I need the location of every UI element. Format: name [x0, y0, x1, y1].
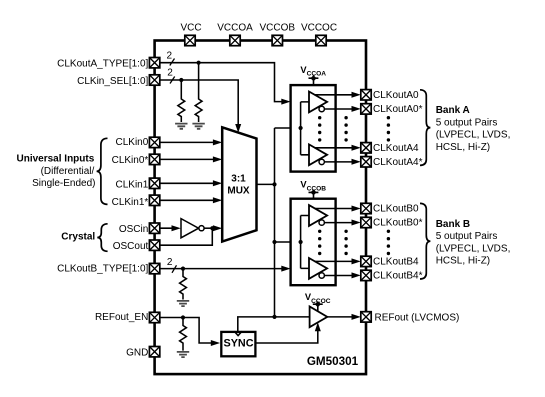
buffer B2 bubble	[319, 273, 324, 278]
ellipsis bank A inner	[318, 116, 321, 142]
svg-text:CLKin0*: CLKin0*	[112, 155, 149, 166]
label bank A description	[436, 105, 511, 153]
arrow to CLKoutA4	[352, 145, 361, 151]
pin OSCout	[149, 240, 159, 250]
pin CLKoutB0	[361, 203, 371, 213]
ellipsis bank A mid	[344, 116, 347, 142]
junction bank A input	[299, 126, 303, 130]
wire trunk to SYNC clock	[238, 317, 275, 332]
buffer B1	[309, 205, 327, 226]
wire buffer A2 out-	[324, 161, 356, 163]
ground for R3	[177, 301, 189, 306]
wire buffer B2 out+	[315, 260, 357, 262]
arrow CLKin0	[213, 139, 222, 145]
arrow into SYNC	[211, 340, 220, 346]
svg-text:CLKoutB_TYPE[1:0]: CLKoutB_TYPE[1:0]	[57, 264, 148, 275]
svg-text:MUX: MUX	[227, 185, 250, 196]
buffer A1 bubble	[319, 106, 324, 111]
label Universal Inputs group	[16, 154, 95, 190]
pin VCCOC	[316, 35, 326, 45]
wire trunk vertical	[274, 128, 276, 317]
buffer A2 bubble	[319, 159, 324, 164]
svg-text:3:1: 3:1	[231, 174, 246, 185]
svg-text:CLKoutB0*: CLKoutB0*	[373, 218, 423, 229]
wire buffer A1 out-	[324, 108, 356, 110]
pin CLKoutA_TYPE[1:0]	[149, 58, 159, 68]
wire inverter out to MUX	[204, 227, 217, 229]
buffer B1 bubble	[319, 220, 324, 225]
svg-text:CLKoutA4: CLKoutA4	[373, 143, 419, 154]
svg-text:GM50301: GM50301	[307, 355, 359, 368]
svg-text:2: 2	[167, 50, 173, 61]
junction inverter output	[210, 226, 214, 230]
svg-text:(Differential/: (Differential/	[41, 166, 95, 177]
ground for R4	[177, 352, 189, 357]
arrow to CLKoutA0	[352, 92, 361, 98]
wire REFout buffer to pin	[327, 316, 356, 318]
bank B block	[291, 199, 336, 286]
bank B input branch wire	[301, 216, 309, 269]
brace bank B	[420, 203, 430, 279]
inverter bubble	[199, 226, 204, 231]
svg-text:OSCout: OSCout	[113, 241, 149, 252]
arrow to CLKoutB0	[352, 206, 361, 212]
wire CLKin0 to MUX	[160, 141, 218, 143]
arrow to REFout	[352, 314, 361, 320]
arrow to CLKoutB0*	[352, 220, 361, 226]
junction on REFout_EN wire	[181, 315, 185, 319]
pin CLKin0*	[149, 154, 159, 164]
ground for R1	[175, 124, 187, 129]
svg-text:Universal Inputs: Universal Inputs	[16, 154, 94, 165]
wire CLKin0* to MUX	[160, 158, 218, 160]
arrow into REFout buffer	[315, 322, 321, 331]
svg-text:CLKoutB0: CLKoutB0	[373, 204, 419, 215]
svg-text:CLKoutB4*: CLKoutB4*	[373, 271, 423, 282]
bank A block	[291, 85, 336, 172]
svg-text:Single-Ended): Single-Ended)	[32, 178, 95, 189]
svg-text:SYNC: SYNC	[224, 337, 254, 349]
junction trunk REFout feed	[272, 315, 276, 319]
svg-text:5 output Pairs: 5 output Pairs	[436, 231, 498, 242]
chip outline GM50301	[155, 41, 366, 375]
wire CLKin1* to MUX	[160, 199, 218, 201]
svg-text:OSCin: OSCin	[119, 224, 148, 235]
inverter U2 (crystal oscillator)	[181, 219, 199, 238]
wire trunk to bank B input	[275, 241, 301, 243]
arrow inverter out into MUX	[213, 225, 222, 231]
svg-text:HCSL, Hi-Z): HCSL, Hi-Z)	[436, 142, 490, 153]
wire trunk to bank A input	[275, 127, 301, 129]
pin CLKin_SEL[1:0]	[149, 75, 159, 85]
pin CLKin1	[149, 178, 159, 188]
wire CLKoutB_TYPE to bank B select	[160, 268, 286, 270]
svg-text:CLKin0: CLKin0	[115, 137, 148, 148]
svg-text:5 output Pairs: 5 output Pairs	[436, 117, 498, 128]
wire REFout_EN to SYNC	[160, 318, 216, 344]
arrow into bank A select	[281, 99, 290, 105]
arrow into SYNC top	[234, 331, 242, 335]
ellipsis bank B mid	[344, 230, 347, 256]
svg-text:VCC: VCC	[180, 22, 201, 33]
buffer A2	[309, 144, 327, 165]
mux U3 3:1 MUX	[222, 127, 256, 241]
bank A input branch wire	[301, 102, 309, 155]
wire SYNC out to REFout buffer enable	[255, 327, 317, 343]
arrow to CLKoutB4*	[352, 272, 361, 278]
pin OSCin	[149, 223, 159, 233]
svg-text:(LVPECL, LVDS,: (LVPECL, LVDS,	[436, 130, 511, 141]
bus slash 2 on CLKin_SEL	[170, 77, 175, 84]
pin REFout	[361, 312, 371, 322]
svg-text:VCCOB: VCCOB	[260, 22, 296, 33]
pin VCC	[185, 35, 195, 45]
svg-text:HCSL, Hi-Z): HCSL, Hi-Z)	[436, 256, 490, 267]
pin REFout_EN	[149, 312, 159, 322]
svg-text:Crystal: Crystal	[61, 231, 95, 242]
brace universal inputs	[97, 138, 108, 204]
arrow to CLKoutA0*	[352, 106, 361, 112]
pin VCCOA	[230, 35, 240, 45]
ellipsis bank B outer	[387, 230, 390, 256]
wire buffer A1 out+	[315, 94, 357, 96]
arrow CLKin0*	[213, 156, 222, 162]
ellipsis bank A outer	[387, 116, 390, 142]
wire CLKin_SEL to MUX select	[160, 80, 238, 129]
buffer U5 REFout	[310, 307, 328, 328]
wire buffer B1 out+	[315, 208, 357, 210]
svg-text:GND: GND	[126, 348, 148, 359]
arrow to CLKoutA4*	[352, 159, 361, 165]
junction trunk at MUX out	[272, 182, 276, 186]
pin VCCOB	[272, 35, 282, 45]
arrow CLKin1	[213, 180, 222, 186]
pin CLKoutB_TYPE[1:0]	[149, 263, 159, 273]
wire CLKoutA_TYPE to bank A select	[160, 63, 286, 102]
svg-text:VCCOC: VCCOC	[301, 22, 337, 33]
pin CLKoutB4*	[361, 270, 371, 280]
pin CLKoutA4*	[361, 157, 371, 167]
resistor R3 (pull on CLKoutB_TYPE)	[180, 269, 187, 300]
svg-text:REFout_EN: REFout_EN	[95, 312, 148, 323]
arrow into inverter	[172, 225, 181, 231]
svg-text:VCCOA: VCCOA	[217, 22, 253, 33]
power stub VCCOB	[309, 190, 319, 199]
pin CLKoutB4	[361, 256, 371, 266]
svg-text:CLKoutA0: CLKoutA0	[373, 90, 419, 101]
arrow to CLKoutB4	[352, 258, 361, 264]
pin CLKin0	[149, 137, 159, 147]
junction on CLKin_SEL wire	[179, 78, 183, 82]
pin CLKoutA0*	[361, 104, 371, 114]
pin GND	[149, 347, 159, 357]
junction trunk bank B feed	[272, 240, 276, 244]
resistor R2 (pull on CLKoutA_TYPE)	[195, 63, 202, 122]
bus slash 2 on CLKoutA_TYPE	[170, 59, 175, 66]
arrow into bank B select	[281, 266, 290, 272]
wire buffer B2 out-	[324, 275, 356, 277]
buffer A1	[309, 92, 327, 113]
power stub VCCOA	[309, 75, 319, 85]
brace crystal	[97, 224, 107, 252]
pin CLKin1*	[149, 195, 159, 205]
junction on CLKoutB_TYPE wire	[181, 267, 185, 271]
wire buffer B1 out-	[324, 222, 356, 224]
svg-text:CLKin1: CLKin1	[115, 180, 148, 191]
svg-text:CLKoutB4: CLKoutB4	[373, 257, 419, 268]
pin CLKoutA0	[361, 90, 371, 100]
wire feedback to OSCout	[160, 228, 213, 245]
svg-text:CLKoutA4*: CLKoutA4*	[373, 157, 423, 168]
svg-text:Bank A: Bank A	[436, 105, 470, 116]
svg-text:CLKin1*: CLKin1*	[112, 197, 149, 208]
arrow into MUX select	[235, 124, 241, 133]
svg-text:2: 2	[167, 257, 173, 268]
pin CLKoutA4	[361, 143, 371, 153]
pin CLKoutB0*	[361, 217, 371, 227]
power stub VCCOC	[313, 301, 323, 311]
svg-text:(LVPECL, LVDS,: (LVPECL, LVDS,	[436, 243, 511, 254]
wire CLKin1 to MUX	[160, 182, 218, 184]
wire trunk to REFout buffer	[275, 316, 310, 318]
resistor R1 (pull on CLKin_SEL)	[178, 80, 185, 122]
ground for R2	[192, 124, 204, 129]
buffer B2	[309, 258, 327, 279]
ellipsis bank B inner	[318, 230, 321, 256]
arrow CLKin1*	[213, 197, 222, 203]
svg-text:REFout (LVCMOS): REFout (LVCMOS)	[375, 312, 460, 323]
junction bank B input	[299, 240, 303, 244]
wire buffer A2 out+	[315, 147, 357, 149]
svg-text:CLKoutA_TYPE[1:0]: CLKoutA_TYPE[1:0]	[57, 59, 148, 70]
svg-text:CLKoutA0*: CLKoutA0*	[373, 104, 423, 115]
label bank B description	[436, 219, 511, 267]
block SYNC U4	[221, 332, 255, 356]
brace bank A	[420, 90, 430, 166]
wire MUX output to trunk	[257, 183, 275, 185]
svg-text:Bank B: Bank B	[436, 219, 470, 230]
bus slash 2 on CLKoutB_TYPE	[172, 265, 177, 273]
resistor R4 (pull on REFout_EN)	[180, 318, 187, 351]
svg-text:CLKin_SEL[1:0]: CLKin_SEL[1:0]	[77, 76, 148, 87]
wire OSCin to inverter	[160, 227, 176, 229]
svg-text:2: 2	[167, 68, 173, 79]
junction on CLKoutA_TYPE wire	[197, 61, 201, 65]
